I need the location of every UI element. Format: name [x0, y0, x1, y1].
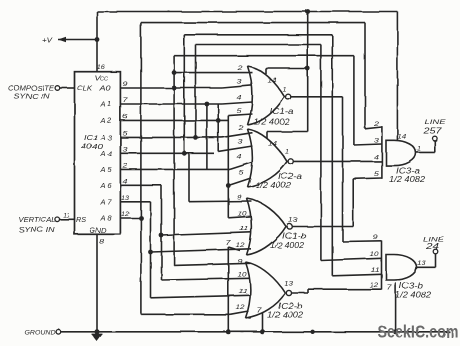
- svg-text:24: 24: [425, 242, 440, 251]
- svg-text:2: 2: [237, 125, 244, 132]
- svg-text:9: 9: [237, 194, 243, 201]
- svg-text:RS: RS: [76, 215, 86, 224]
- svg-text:A 8: A 8: [99, 214, 111, 223]
- svg-text:VERTICAL: VERTICAL: [19, 215, 56, 224]
- svg-text:12: 12: [236, 242, 245, 249]
- svg-text:1/2 4002: 1/2 4002: [270, 241, 305, 250]
- svg-text:4: 4: [237, 95, 243, 102]
- svg-text:1: 1: [283, 87, 287, 94]
- svg-text:1/2 4002: 1/2 4002: [267, 310, 304, 319]
- svg-text:13: 13: [121, 195, 129, 202]
- svg-text:IC1: IC1: [84, 133, 98, 142]
- svg-text:CLK: CLK: [77, 84, 93, 93]
- svg-text:A 5: A 5: [99, 165, 112, 174]
- svg-text:1: 1: [417, 145, 421, 152]
- svg-text:2: 2: [236, 65, 243, 72]
- svg-text:IC2-a: IC2-a: [278, 172, 303, 181]
- svg-text:11: 11: [371, 267, 381, 274]
- svg-text:12: 12: [121, 211, 129, 218]
- svg-text:IC2-b: IC2-b: [278, 301, 303, 310]
- svg-text:3: 3: [374, 138, 380, 145]
- svg-text:14: 14: [397, 133, 406, 140]
- svg-text:CC: CC: [100, 76, 108, 82]
- svg-text:1/2 4002: 1/2 4002: [255, 181, 292, 190]
- svg-text:+V: +V: [42, 35, 53, 44]
- svg-text:13: 13: [284, 280, 293, 287]
- svg-text:11: 11: [239, 288, 249, 295]
- svg-text:A 6: A 6: [99, 181, 111, 190]
- svg-text:257: 257: [422, 126, 442, 135]
- svg-text:8: 8: [99, 238, 105, 245]
- svg-text:16: 16: [97, 64, 105, 71]
- svg-text:5: 5: [123, 130, 129, 137]
- svg-text:GROUND: GROUND: [25, 329, 56, 336]
- svg-text:GND: GND: [90, 226, 107, 235]
- svg-text:1: 1: [285, 148, 289, 155]
- svg-text:5: 5: [237, 108, 243, 115]
- svg-text:12: 12: [236, 304, 245, 311]
- svg-text:4: 4: [123, 178, 129, 185]
- svg-text:11: 11: [63, 212, 70, 219]
- svg-text:LINE: LINE: [425, 119, 447, 126]
- svg-text:5: 5: [374, 171, 380, 178]
- svg-text:3: 3: [237, 78, 243, 85]
- svg-text:2: 2: [121, 162, 128, 169]
- svg-text:1/2 4082: 1/2 4082: [395, 290, 432, 299]
- svg-text:IC3-b: IC3-b: [399, 281, 424, 290]
- svg-text:9: 9: [373, 234, 379, 241]
- svg-text:A 7: A 7: [99, 197, 112, 206]
- svg-text:10: 10: [370, 251, 379, 258]
- svg-text:10: 10: [238, 271, 247, 278]
- svg-text:14: 14: [268, 140, 277, 147]
- svg-text:13: 13: [289, 217, 298, 224]
- svg-text:9: 9: [238, 258, 244, 265]
- svg-text:A0: A0: [98, 84, 110, 93]
- svg-text:SeekIC.com: SeekIC.com: [378, 322, 459, 342]
- svg-text:IC1-a: IC1-a: [270, 107, 295, 116]
- svg-text:6: 6: [123, 113, 129, 120]
- svg-text:9: 9: [123, 81, 129, 88]
- svg-text:13: 13: [417, 260, 426, 267]
- svg-text:14: 14: [267, 77, 276, 84]
- svg-text:4: 4: [237, 154, 243, 161]
- svg-text:3: 3: [238, 139, 244, 146]
- svg-text:4: 4: [374, 154, 380, 161]
- svg-text:1/2 4082: 1/2 4082: [389, 175, 426, 184]
- svg-text:12: 12: [369, 282, 378, 289]
- svg-text:2: 2: [373, 121, 380, 128]
- svg-text:3: 3: [123, 146, 129, 153]
- svg-text:5: 5: [239, 170, 245, 177]
- svg-text:10: 10: [238, 211, 247, 218]
- svg-text:1/2 4002: 1/2 4002: [254, 117, 291, 126]
- svg-text:A 1: A 1: [99, 100, 111, 109]
- svg-text:SYNC IN: SYNC IN: [14, 92, 51, 101]
- svg-text:11: 11: [240, 226, 250, 233]
- svg-text:7: 7: [123, 97, 129, 104]
- svg-text:A 3: A 3: [99, 133, 111, 142]
- svg-text:A 4: A 4: [99, 149, 111, 158]
- svg-text:SYNC IN: SYNC IN: [19, 225, 56, 234]
- svg-text:IC1-b: IC1-b: [282, 231, 307, 240]
- svg-text:A 2: A 2: [99, 116, 111, 125]
